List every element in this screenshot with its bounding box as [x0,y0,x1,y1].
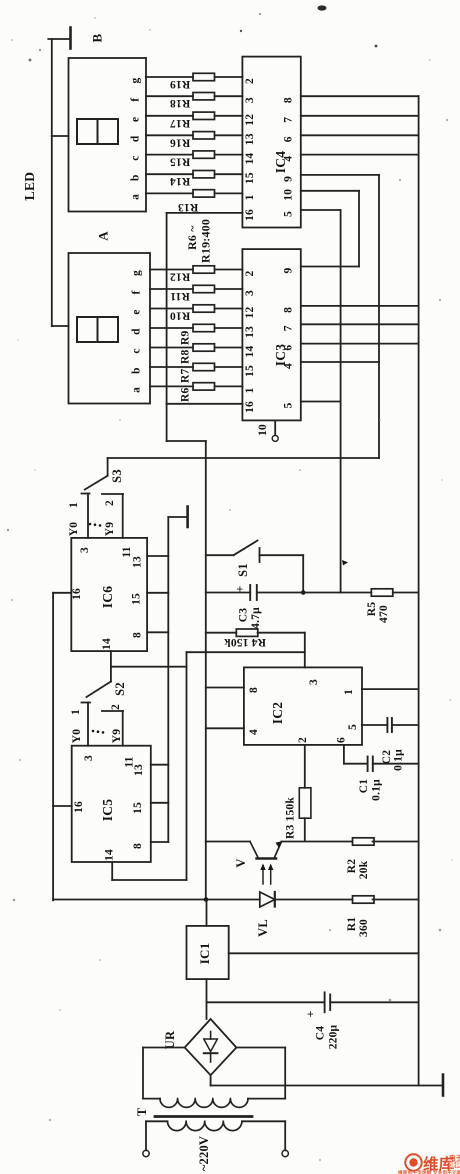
wire IC5.13 [151,764,169,766]
svg-text:13: 13 [132,556,144,568]
svg-text:R9: R9 [180,330,192,345]
scan specks [318,5,327,10]
LED display B [69,58,147,212]
wire [146,76,193,78]
S3 contact 1 [82,493,90,495]
wire [258,632,305,634]
IC U-IC2 (555 timer) [244,667,362,745]
svg-text:S1: S1 [236,563,250,577]
svg-text:10: 10 [257,424,269,436]
svg-text:4: 4 [248,729,260,735]
resistor R5 [371,589,393,596]
resistor R19 [193,73,215,80]
wire IC3.6 to bus [301,343,419,345]
resistor R18 [193,93,215,100]
svg-text:8: 8 [283,97,295,103]
svg-text:8: 8 [132,632,144,638]
wire [146,173,193,175]
wire IC1 in [206,979,208,1019]
wire IC2.1 to bus [362,688,419,690]
LED VL [260,892,275,907]
svg-text:c: c [131,348,143,353]
svg-text:R10: R10 [170,310,190,322]
wire IC4.4 to bus [301,154,419,156]
svg-text:A: A [95,231,110,241]
capacitor C4 (electrolytic) [324,992,326,1012]
svg-text:f: f [131,290,143,294]
transistor V (phototransistor) [257,857,277,859]
svg-text:R14: R14 [170,175,190,187]
svg-text:T: T [135,1107,149,1116]
svg-text:场网: 场网 [450,1161,460,1169]
wire IC4.5 [301,209,341,211]
wire IC2.8 [206,687,244,689]
wire IC3.9 [301,266,359,268]
wire IC6.8 [147,631,168,633]
resistor R3 [299,788,311,818]
wire [215,269,243,271]
wire IC2.2 stub [304,745,306,788]
wire IC2.4 [206,727,244,729]
wire [150,327,193,329]
resistor R9 [193,324,215,331]
wire IC6.13 [147,555,168,557]
svg-text:R19:400: R19:400 [199,219,213,263]
resistor R17 [193,112,215,119]
svg-text:g: g [131,270,143,276]
svg-text:6: 6 [283,345,295,351]
svg-text:7: 7 [283,117,295,123]
svg-text:16: 16 [244,209,256,221]
wire S3 pivot [107,458,109,476]
svg-text:R7: R7 [180,368,192,383]
transformer T primary winding [146,1120,168,1122]
svg-text:3: 3 [244,290,256,296]
svg-text:16: 16 [244,401,256,413]
svg-text:Y9: Y9 [104,522,116,537]
svg-text:14: 14 [101,638,113,650]
svg-text:3: 3 [83,755,95,761]
svg-text:2: 2 [110,704,122,710]
svg-text:12: 12 [244,307,256,319]
svg-text:1: 1 [244,194,256,200]
svg-text:c: c [130,155,142,160]
resistor R4 [236,629,257,636]
wire [341,592,372,594]
terminal [282,1150,288,1156]
wire [275,899,353,901]
wire [215,76,243,78]
wire [215,366,243,368]
wire [206,592,250,594]
svg-text:10: 10 [283,189,295,201]
svg-text:15: 15 [131,593,143,605]
wire [304,818,306,841]
svg-text:R5: R5 [366,602,378,617]
wire [215,288,243,290]
wire [207,1001,325,1003]
power rail bar (top) [69,28,72,49]
wire IC3.10 stub [274,420,276,435]
wire ground bus [167,517,169,842]
wire IC4.16 [167,212,243,214]
wire [302,555,304,592]
wire [150,366,193,368]
svg-text:VL: VL [256,919,270,937]
display B digit symbol [77,119,118,144]
IC U-IC1 (regulator) [187,926,229,979]
S3 contact 2 [102,493,123,495]
svg-text:8: 8 [132,843,144,849]
svg-text:15: 15 [244,172,256,184]
wire IC5.16 [53,805,72,807]
wire IC3.8 to bus [301,305,419,307]
wire right bus [418,96,420,1085]
svg-text:8: 8 [283,307,295,313]
S1 contact [259,548,261,562]
svg-text:R1: R1 [346,917,358,932]
svg-text:C3: C3 [238,608,250,623]
svg-text:7: 7 [283,325,295,331]
wire [215,192,243,194]
svg-text:C2: C2 [381,750,393,765]
svg-text:14: 14 [104,849,116,861]
svg-text:b: b [131,367,143,374]
wire [392,724,419,726]
LED display A [69,253,151,404]
svg-text:2: 2 [297,737,309,743]
svg-text:9: 9 [283,176,295,182]
svg-text:8: 8 [248,687,260,693]
wire [330,1001,418,1003]
svg-text:+: + [233,585,247,592]
svg-text:470: 470 [378,605,390,623]
wire [282,841,353,843]
light arrows [262,866,264,884]
wire [373,899,419,901]
wire [210,1075,212,1085]
transformer T secondary winding [143,1098,160,1100]
watermark logo [398,1153,460,1174]
svg-text:IC5: IC5 [100,799,115,821]
wire Y0 to IC5.3 [87,703,89,746]
IC U-IC5 (CD4017 counter) [72,746,151,862]
stray mark [342,560,348,565]
wire Y9 to IC6.11 [122,494,124,538]
svg-text:2: 2 [244,78,256,84]
wire [215,308,243,310]
wire S3 common row [108,457,379,459]
wire [48,38,69,40]
wire [236,1047,285,1049]
S2 contact 2 [102,710,123,712]
svg-text:C1: C1 [358,779,370,794]
svg-text:14: 14 [244,346,256,358]
svg-text:12: 12 [244,114,256,126]
wire S2 common row [111,666,187,668]
switch S2 blade [87,682,111,698]
wire Y0 to IC6.3 [87,494,89,538]
svg-text:~220V: ~220V [197,1136,211,1171]
wire [143,1047,185,1049]
svg-text:b: b [130,174,142,181]
wire [146,134,193,136]
wire [167,440,206,442]
wire IC4.8 to bus [301,95,419,97]
resistor R13 [193,190,215,197]
svg-text:R3 150k: R3 150k [285,797,297,839]
S3 dots [89,523,92,526]
wire IC3.5 [301,401,341,403]
svg-text:R8: R8 [180,349,192,364]
svg-text:g: g [130,77,142,83]
wire [373,841,419,843]
wire [150,288,193,290]
resistor R1 [353,896,375,903]
S2 dots [92,730,95,733]
wire [150,347,193,349]
svg-text:16: 16 [73,801,85,813]
svg-text:3: 3 [308,679,320,685]
svg-text:13: 13 [133,764,145,776]
resistor R11 [193,285,215,292]
wire IC5.15 [151,802,169,804]
svg-text:0.1μ: 0.1μ [393,749,405,771]
wire R4 to IC2.3 [304,633,306,668]
wire [344,763,368,765]
wire [52,135,69,137]
wire [215,347,243,349]
junction [204,897,209,902]
svg-text:14: 14 [244,153,256,165]
svg-text:R17: R17 [170,117,190,129]
wire [145,1121,147,1150]
wire clock net [186,652,188,880]
svg-text:e: e [130,117,142,122]
wire IC6.14 stub [110,651,112,667]
svg-text:d: d [130,135,142,142]
bridge rectifier UR [185,1019,237,1075]
wire IC5.14 stub [111,862,113,880]
wire [52,325,69,327]
wire [215,385,243,387]
svg-text:1: 1 [244,387,256,393]
wire Y9 to IC5.11 [122,711,124,746]
wire [257,592,341,594]
wire S2 pivot [110,667,112,682]
terminal [143,1150,149,1156]
wire [260,554,304,556]
wire [215,115,243,117]
wire [206,841,250,843]
capacitor C2 [386,718,388,732]
svg-text:R6 ~: R6 ~ [185,225,199,250]
IC U-IC3 (display driver) [242,249,300,420]
wire IC2.5 [362,724,387,726]
wire LED common bus [51,39,53,326]
svg-text:S2: S2 [113,682,127,696]
wire [215,154,243,156]
svg-text:R6: R6 [180,387,192,402]
svg-text:e: e [131,309,143,314]
svg-text:d: d [131,328,143,335]
wire [142,1048,144,1099]
resistor R16 [193,132,215,139]
wire [150,308,193,310]
svg-text:13: 13 [244,133,256,145]
resistor R6 [193,383,215,390]
wire +V left bus [52,593,54,901]
wire IC2.6 stub [343,745,345,764]
svg-text:LED: LED [22,172,37,200]
svg-text:IC6: IC6 [100,586,115,608]
wire IC5.8 [151,841,169,843]
wire IC1 gnd to bus [229,952,419,954]
wire [284,1048,286,1099]
display A digit symbol [77,317,118,342]
wire IC3.4 [301,361,379,363]
wire IC3.16 [167,403,243,405]
svg-text:15: 15 [132,802,144,814]
svg-text:UR: UR [163,1030,177,1049]
wire [146,192,193,194]
capacitor C1 [367,757,369,772]
wire [215,134,243,136]
svg-text:6: 6 [336,737,348,743]
IC U-IC4 (display driver) [242,57,300,228]
wire VN1 net down [205,441,207,900]
wire +5V rail [53,899,260,901]
svg-text:R2: R2 [346,859,358,874]
svg-text:4: 4 [283,156,295,162]
svg-text:S3: S3 [110,469,124,483]
svg-text:电子市: 电子市 [449,1153,460,1162]
svg-text:1: 1 [68,502,80,508]
wire [206,554,234,556]
svg-text:a: a [130,194,142,200]
wire [166,213,168,404]
svg-text:5: 5 [283,211,295,217]
svg-text:4: 4 [283,363,295,369]
transformer core [155,1115,252,1118]
wire [150,269,193,271]
svg-text:Y0: Y0 [68,522,80,537]
svg-text:Y0: Y0 [71,729,83,744]
svg-text:9: 9 [283,267,295,273]
wire ground rail [211,1085,442,1087]
resistor R10 [193,305,215,312]
switch S1 blade [234,541,258,556]
svg-text:20k: 20k [358,860,370,879]
switch S3 blade [85,476,108,490]
svg-text:5: 5 [347,724,359,730]
svg-text:360: 360 [358,919,370,937]
junction [301,590,306,595]
svg-text:V: V [234,858,248,867]
svg-text:R12: R12 [170,271,190,283]
wire [146,95,193,97]
svg-text:3: 3 [244,97,256,103]
IC3 pin 10 terminal [272,435,278,441]
wire [150,385,193,387]
resistor R12 [193,266,215,273]
wire IC4.5/IC3.5 down [340,210,342,593]
svg-text:R15: R15 [170,156,190,168]
capacitor C3 [249,585,251,600]
svg-text:0.1μ: 0.1μ [371,779,383,801]
wire IC4.10 to IC3.9 [358,191,360,267]
wire [215,327,243,329]
svg-text:220μ: 220μ [328,1024,340,1049]
svg-text:2: 2 [244,270,256,276]
wire IC6.15 [147,592,168,594]
svg-text:13: 13 [244,326,256,338]
svg-text:R11: R11 [170,290,190,302]
wire [284,1121,286,1150]
svg-text:1: 1 [70,709,82,715]
resistor R2 [353,838,375,845]
svg-text:IC1: IC1 [197,943,212,965]
svg-text:3: 3 [79,547,91,553]
wire [215,95,243,97]
S2 contact 1 [82,702,91,704]
resistor R15 [193,151,215,158]
wire [146,115,193,117]
svg-text:Y9: Y9 [111,729,123,744]
wire IC4.9 [301,174,379,176]
svg-text:5: 5 [283,402,295,408]
wire [146,154,193,156]
resistor R14 [193,171,215,178]
wire [112,879,186,881]
wire [393,592,419,594]
ground bar (bottom right) [442,1075,445,1096]
svg-text:15: 15 [244,365,256,377]
svg-text:a: a [131,387,143,393]
IC U-IC6 (CD4017 counter) [71,538,147,651]
resistor R8 [193,344,215,351]
svg-text:R13: R13 [178,201,198,213]
wire node [378,175,380,458]
svg-text:1: 1 [343,689,355,695]
svg-text:IC2: IC2 [270,702,285,724]
wire IC6.16 [53,592,71,594]
svg-text:R19: R19 [170,78,190,90]
svg-text:2: 2 [104,500,116,506]
wire IC4.10 [301,190,359,192]
wire IC3.7 to bus [301,323,419,325]
wire 555 out to counters [187,651,305,653]
svg-text:11: 11 [121,546,133,557]
wire IC4.7 to bus [301,115,419,117]
svg-text:16: 16 [71,588,83,600]
resistor R7 [193,363,215,370]
svg-text:R4 150k: R4 150k [224,636,266,648]
svg-text:4.7μ: 4.7μ [250,607,262,629]
svg-text:B: B [90,33,105,42]
svg-text:C4: C4 [315,1026,327,1041]
wire [373,763,419,765]
svg-text:6: 6 [283,136,295,142]
svg-text:+: + [303,1010,317,1017]
svg-text:f: f [130,98,142,102]
wire IC1 out [206,900,208,926]
svg-text:维库电子市场网 专业电子元器件采购网站: 维库电子市场网 专业电子元器件采购网站 [398,1169,460,1174]
wire [166,404,168,441]
ground symbol [186,507,189,528]
wire IC4.6 to bus [301,134,419,136]
wire [215,173,243,175]
